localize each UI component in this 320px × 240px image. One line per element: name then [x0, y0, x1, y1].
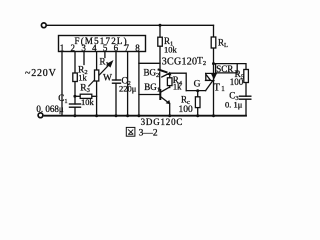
svg-text:BG1: BG1 — [144, 82, 160, 94]
svg-text:1k: 1k — [78, 72, 87, 82]
svg-text:SCR: SCR — [216, 64, 233, 74]
svg-text:3: 3 — [81, 43, 86, 53]
svg-text:5: 5 — [103, 43, 108, 53]
svg-text:0. 068μ: 0. 068μ — [36, 104, 64, 114]
svg-text:1k: 1k — [173, 82, 182, 92]
svg-text:3CG120: 3CG120 — [162, 56, 197, 67]
svg-text:R1: R1 — [100, 57, 109, 69]
svg-text:100: 100 — [230, 77, 244, 87]
svg-text:RL: RL — [218, 38, 228, 50]
svg-text:10k: 10k — [81, 97, 95, 107]
svg-text:R3: R3 — [80, 84, 90, 95]
svg-text:3DG120C: 3DG120C — [141, 117, 184, 127]
svg-text:W: W — [103, 73, 112, 83]
svg-text:220μ: 220μ — [119, 83, 137, 93]
svg-text:G: G — [194, 79, 201, 89]
svg-text:6: 6 — [114, 43, 119, 53]
svg-text:T2: T2 — [197, 57, 206, 68]
svg-text:T1: T1 — [214, 82, 226, 93]
svg-text:10k: 10k — [164, 45, 178, 55]
svg-text:2: 2 — [71, 43, 76, 53]
svg-text:7: 7 — [124, 43, 129, 53]
svg-text:100: 100 — [179, 105, 194, 115]
svg-text:8: 8 — [135, 43, 140, 53]
svg-text:4: 4 — [92, 43, 97, 53]
svg-text:0. 1μ: 0. 1μ — [225, 100, 243, 110]
svg-text:BG2: BG2 — [144, 68, 160, 80]
svg-text:~220V: ~220V — [25, 68, 57, 79]
svg-text:1: 1 — [60, 43, 65, 53]
svg-text:3—2: 3—2 — [139, 128, 158, 138]
